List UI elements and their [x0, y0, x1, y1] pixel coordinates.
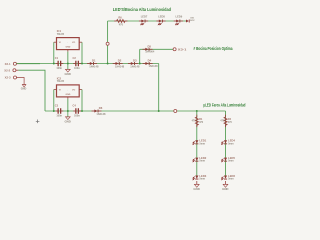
diode LED10 end arrow: [186, 18, 195, 23]
svg-text:GND: GND: [66, 47, 71, 49]
svg-text:100n: 100n: [56, 114, 62, 117]
svg-text:1N4148: 1N4148: [130, 64, 140, 68]
svg-text:GND: GND: [66, 94, 71, 96]
wire rail1 VIN: [16, 63, 158, 65]
svg-text:5mm: 5mm: [199, 142, 205, 145]
wire LED row: [108, 20, 186, 22]
svg-text:5mm: 5mm: [228, 160, 234, 163]
node rail2/IC2 VI: [53, 110, 55, 112]
svg-text:GND: GND: [64, 119, 70, 123]
wire IC1 gnd drop: [67, 52, 69, 64]
wire X2-3 to ground: [16, 78, 24, 85]
LED LED5: [222, 156, 236, 163]
svg-text:C3: C3: [55, 104, 59, 108]
svg-text:5mm: 5mm: [199, 160, 205, 163]
wire bocina feed: [139, 49, 141, 63]
resistor R6: [114, 15, 127, 26]
capacitor C2: [73, 56, 82, 70]
wire IC2 gnd drop: [67, 99, 69, 111]
LED LED4: [222, 139, 236, 146]
svg-text:X2-1: X2-1: [5, 62, 11, 66]
pin stub X2-1: [16, 63, 19, 65]
svg-text:D1: D1: [92, 59, 96, 63]
svg-text:LED7: LED7: [141, 15, 148, 19]
voltage regulator IC2: [54, 76, 82, 99]
svg-text:1N4148: 1N4148: [89, 64, 99, 68]
capacitor C4: [73, 104, 82, 118]
node rail1/bocina feed: [139, 63, 141, 65]
node rail2/GND: [67, 110, 69, 112]
svg-text:VO: VO: [72, 42, 75, 44]
svg-text:470: 470: [199, 121, 204, 124]
svg-text:VO: VO: [72, 89, 75, 91]
svg-text:100n: 100n: [74, 114, 80, 117]
pin stub X2-2: [16, 69, 19, 71]
svg-text:C4: C4: [73, 104, 77, 108]
svg-text:5mm: 5mm: [228, 142, 234, 145]
LED LED2: [193, 156, 207, 163]
node rail1/GND: [67, 63, 69, 65]
ground GND under rail1: [64, 64, 70, 76]
connector pin X3-1: [173, 48, 176, 51]
svg-text:470: 470: [192, 120, 197, 123]
connector pin JP2 inline: [174, 110, 177, 113]
svg-text:BOC: BOC: [190, 20, 195, 22]
svg-text:D4: D4: [148, 59, 152, 63]
svg-text:GND: GND: [64, 72, 70, 76]
node rail1/LED feed: [107, 63, 109, 65]
svg-text:LED8: LED8: [158, 15, 165, 19]
LED LED3: [193, 174, 207, 181]
ground GND col1: [193, 181, 199, 191]
wire rail2: [45, 110, 226, 112]
wire LED column 2: [225, 111, 227, 177]
resistor R1: [192, 115, 204, 127]
ground GND col2: [222, 181, 228, 191]
svg-text:D3: D3: [133, 59, 137, 63]
wire IC1 input drop: [53, 42, 55, 63]
svg-text:→: →: [66, 42, 68, 44]
svg-text:X2-2: X2-2: [4, 68, 10, 72]
node rail1/IC1 VO: [81, 63, 83, 65]
connector pin JP1 inline: [106, 42, 109, 45]
node sheet origin cross: [36, 120, 40, 124]
svg-text:470: 470: [228, 121, 233, 124]
svg-text:470: 470: [220, 120, 225, 123]
LED LED7: [139, 15, 148, 25]
wire LED row feed: [107, 21, 109, 64]
svg-text:1N4148: 1N4148: [115, 64, 125, 68]
diode D2: [113, 59, 125, 69]
node rail2/IC2 VO: [81, 110, 83, 112]
svg-text:C1: C1: [55, 56, 59, 60]
svg-text:µLED Faros Alta Luminosidad: µLED Faros Alta Luminosidad: [203, 102, 245, 107]
svg-text:78L05: 78L05: [57, 32, 65, 36]
svg-text:5mm: 5mm: [199, 178, 205, 181]
diode D4: [143, 59, 159, 68]
resistor R2: [220, 115, 232, 127]
svg-text:1N4004: 1N4004: [145, 49, 155, 53]
wire IC1 output drop: [81, 42, 83, 63]
wire X2-1 to rail1: [19, 63, 40, 65]
svg-text:1N4148: 1N4148: [149, 64, 159, 68]
wire X2-2 to rail2: [18, 70, 45, 111]
wire bocina row: [140, 48, 173, 50]
svg-text:X3-1: X3-1: [178, 47, 187, 51]
svg-text:470: 470: [119, 23, 124, 26]
svg-text:LED'S/Bocina Alta Luminosidad: LED'S/Bocina Alta Luminosidad: [113, 7, 171, 12]
svg-text:GND: GND: [193, 187, 199, 191]
node rail2/col1: [196, 110, 198, 112]
svg-text:D2: D2: [118, 59, 122, 63]
capacitor C1: [55, 56, 64, 70]
LED LED1: [193, 139, 207, 146]
svg-text:5mm: 5mm: [228, 178, 234, 181]
svg-text:GND: GND: [222, 187, 228, 191]
svg-text:D5: D5: [148, 44, 152, 48]
diode D5: [143, 44, 155, 53]
diode D3: [128, 59, 140, 69]
svg-text:C2: C2: [73, 56, 77, 60]
svg-text:100n: 100n: [74, 67, 80, 70]
LED LED9: [174, 15, 183, 25]
connector pin X2-1: [13, 62, 16, 65]
wire rail1 to rail2: [158, 64, 160, 112]
svg-text:GND: GND: [21, 87, 27, 90]
svg-text:→: →: [66, 89, 68, 91]
voltage regulator IC1: [54, 29, 82, 52]
svg-text:1N4148: 1N4148: [96, 112, 106, 116]
svg-text:LED9: LED9: [176, 15, 183, 19]
svg-text:78L05: 78L05: [57, 79, 65, 83]
svg-text:X2-3: X2-3: [5, 76, 11, 80]
ground GND under rail2: [64, 111, 70, 123]
node rail2/rail1 drop: [158, 110, 160, 112]
svg-text:# Bocina Posicion Optima: # Bocina Posicion Optima: [194, 46, 233, 51]
ground GND at X2-3: [21, 85, 27, 91]
diode D1: [87, 59, 99, 69]
LED LED6: [222, 174, 236, 181]
LED LED8: [156, 15, 165, 25]
diode D6: [92, 106, 107, 116]
node rail1/IC1 VI: [53, 63, 55, 65]
svg-text:100n: 100n: [56, 67, 62, 70]
svg-text:R6: R6: [118, 15, 122, 19]
connector pin X2-2: [13, 69, 16, 72]
wire IC2 output drop: [81, 90, 83, 112]
wire LED column 1: [196, 111, 198, 177]
connector pin X2-3: [14, 76, 17, 79]
capacitor C3: [55, 104, 64, 118]
wire IC2 input drop: [53, 90, 55, 112]
svg-text:D6: D6: [99, 106, 103, 110]
